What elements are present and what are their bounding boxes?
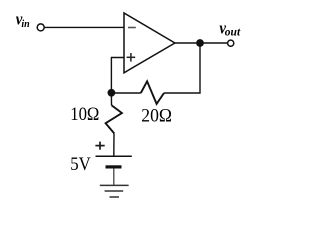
op-amp minus sign xyxy=(128,27,136,29)
node vin label xyxy=(16,11,24,29)
battery V1 positive plate xyxy=(96,155,132,157)
label 20ohm xyxy=(141,105,172,126)
svg-text:in: in xyxy=(21,19,30,30)
node A junction dot xyxy=(108,89,116,97)
resistor R1 10ohm zigzag xyxy=(106,105,122,133)
resistor R2 20ohm zigzag xyxy=(141,81,164,104)
wire noninverting input xyxy=(111,58,124,94)
wire 20ohm to corner xyxy=(164,43,200,93)
terminal vin xyxy=(37,24,44,31)
op-amp plus sign xyxy=(127,53,136,62)
op-amp U1 xyxy=(124,13,175,73)
svg-text:out: out xyxy=(225,27,241,39)
svg-text:20Ω: 20Ω xyxy=(141,105,172,126)
node output dot xyxy=(196,39,204,47)
node vout label xyxy=(219,20,227,38)
label 10ohm xyxy=(70,103,99,124)
wire vin to op-amp inverting input xyxy=(44,26,124,28)
svg-text:10Ω: 10Ω xyxy=(70,103,99,124)
battery V1 negative plate xyxy=(106,165,122,168)
terminal vout xyxy=(228,40,234,46)
label 5V xyxy=(70,153,91,174)
battery plus sign xyxy=(95,142,104,150)
wire op-amp output xyxy=(175,42,228,44)
wire battery to ground xyxy=(113,168,115,185)
ground xyxy=(100,185,129,197)
wire junction to 20ohm xyxy=(111,92,140,94)
wire junction to 10ohm xyxy=(110,93,112,105)
wire 10ohm to battery xyxy=(113,133,115,156)
svg-text:5V: 5V xyxy=(70,153,91,174)
